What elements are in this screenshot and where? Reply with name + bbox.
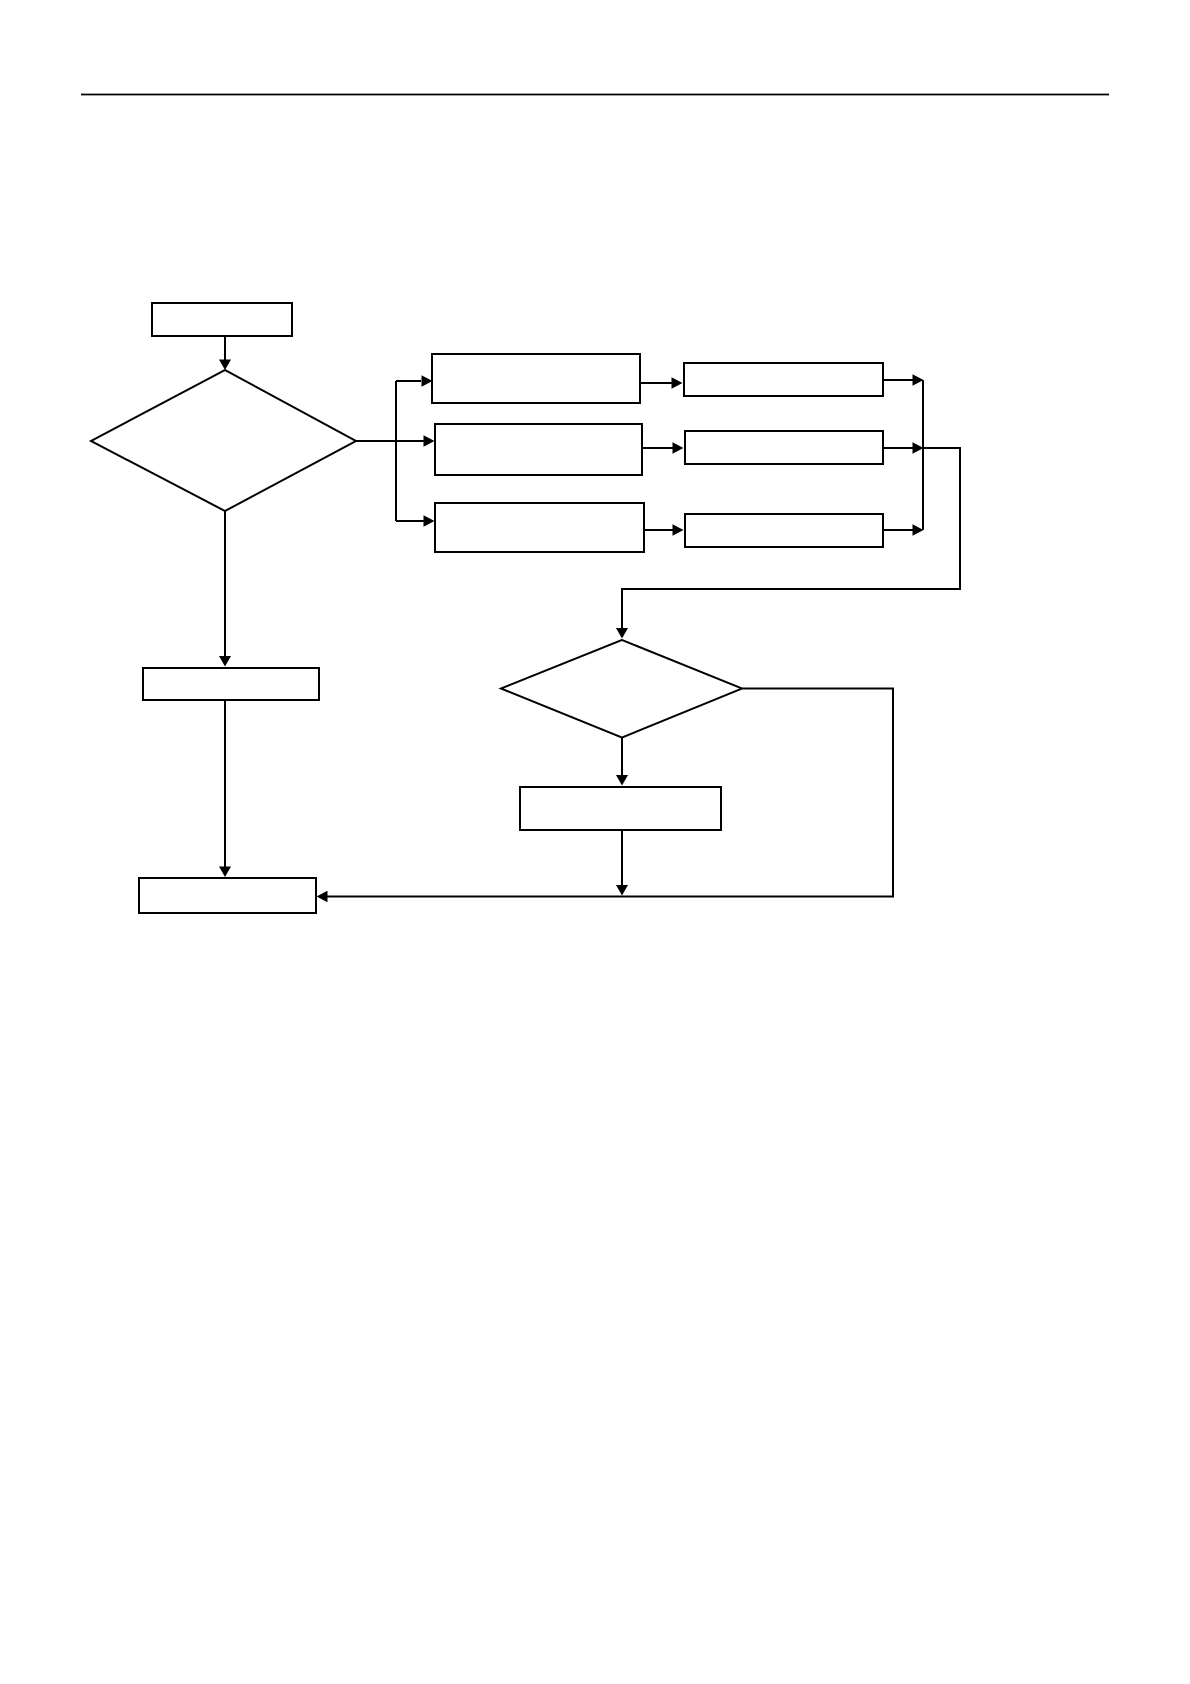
arrow D2 to box E (down) [616, 738, 628, 786]
process box B2 (middle column middle) [435, 424, 642, 475]
arrow B3 to C3 [645, 524, 684, 536]
decision diamond D2 [501, 640, 742, 738]
process box C3 (right column bottom) [685, 514, 883, 547]
process box F (bottom left end) [139, 878, 316, 913]
header rule [81, 94, 1109, 96]
arrow into diamond D2 [616, 628, 628, 639]
wire: D2 right exit, down and long left return into box F [327, 689, 893, 897]
arrow B2 to C2 [643, 442, 684, 454]
decision diamond D1 [91, 370, 356, 511]
arrow C1 to collector [884, 374, 924, 386]
arrow C3 to collector [884, 524, 924, 536]
arrow branch to box B1 [396, 375, 433, 387]
process box A (top-left start) [152, 303, 292, 336]
arrow branch to box B3 [396, 515, 435, 527]
arrow B1 to C1 [641, 377, 683, 389]
arrow A to diamond D1 [219, 337, 231, 370]
process box D (left middle) [143, 668, 319, 700]
wire: collector to diamond D2 (right, down, left, down) [622, 448, 960, 630]
process box C2 (right column middle) [685, 431, 883, 464]
arrow C2 to collector [884, 442, 924, 454]
process box B1 (middle column top) [432, 354, 640, 403]
wire: D1 right exit to branch junction and arrow into box B2 [356, 435, 435, 447]
arrow box D down to box F [219, 700, 231, 877]
wire: D1 bottom to box D [219, 511, 231, 667]
arrow into box F right edge [317, 891, 328, 903]
arrow box E down to return line [616, 831, 628, 896]
process box B3 (middle column bottom) [435, 503, 644, 552]
wire: collector vertical [922, 380, 924, 530]
process box C1 (right column top) [684, 363, 883, 396]
process box E (below D2) [520, 787, 721, 830]
wire: branch vertical distributor [395, 381, 397, 521]
